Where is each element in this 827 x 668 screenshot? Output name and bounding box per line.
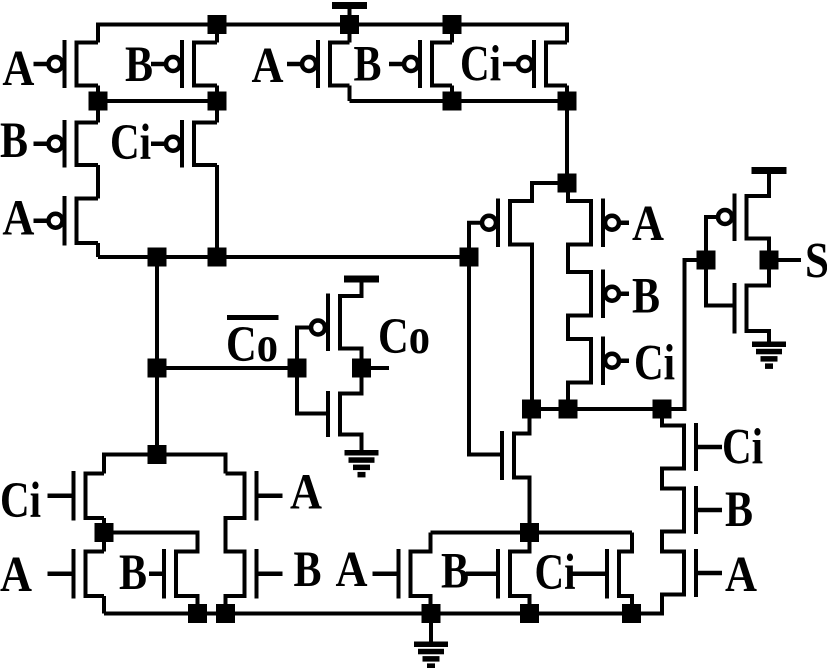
wire CoBar to sum NMOS gate	[469, 257, 500, 455]
svg-text:A: A	[252, 38, 284, 94]
svg-text:Co: Co	[378, 309, 430, 365]
transistor PMOS A (sum series chain)	[568, 199, 629, 248]
transistor NMOS A (carry pulldown row2 left)	[48, 549, 105, 599]
label CoBar	[226, 315, 279, 373]
power VDD (Co inverter)	[344, 276, 379, 298]
junction VDD rail / VDD stem	[340, 15, 359, 34]
wire N2 down to sum PMOS	[565, 101, 569, 183]
wire nmos B21 top	[510, 533, 530, 552]
svg-text:B: B	[725, 482, 753, 538]
wire left col2 row2-CoB rail	[215, 165, 219, 257]
svg-text:A: A	[725, 547, 757, 603]
label Ci (carry row2 right)	[110, 115, 151, 171]
label A (sum pulldown parallel)	[336, 542, 368, 598]
wire CoBar to Co inverter	[157, 366, 297, 370]
transistor NMOS CoBar-gated (sum pulldown)	[502, 431, 530, 480]
label A (sum parallel)	[252, 38, 284, 94]
label B (carry pulldown right)	[294, 542, 322, 598]
junction CoBar / carry col2	[208, 248, 227, 267]
transistor PMOS B (carry row2 left)	[34, 120, 99, 168]
label A (carry row3)	[2, 191, 34, 247]
power VDD (S inverter)	[752, 167, 787, 189]
transistor NMOS A (sum parallel pulldown)	[373, 549, 431, 599]
transistor NMOS (Co inverter)	[328, 391, 362, 437]
transistor PMOS A (carry row1 left)	[34, 40, 99, 88]
wire nmos Ci22 bottom	[619, 596, 632, 614]
wire nmos col1 bottom	[102, 596, 106, 614]
wire S output lead	[779, 258, 802, 262]
wire S inv NMOS top	[747, 260, 770, 286]
svg-text:Ci: Ci	[634, 336, 675, 392]
transistor PMOS B (sum parallel group)	[389, 40, 452, 88]
label B (sum parallel)	[354, 37, 382, 93]
wire sum chain NMOS bottom jog	[662, 595, 684, 614]
transistor NMOS B (sum series pulldown)	[662, 486, 722, 534]
wire sum chain NMOS top jog	[662, 409, 684, 426]
wire left col2 row1-node1	[215, 86, 219, 123]
transistor PMOS (S inverter)	[718, 194, 769, 242]
transistor PMOS A (carry row3)	[34, 196, 99, 246]
wire pmosA6 bottom	[348, 86, 352, 102]
junction GND rail / right branch	[216, 604, 235, 623]
svg-text:S: S	[805, 234, 827, 290]
wire sum NMOS T23 top	[514, 409, 530, 434]
junction SBar mid	[559, 400, 578, 419]
label A (sum chain NMOS)	[725, 547, 757, 603]
wire Co inv PMOS bottom	[340, 349, 362, 369]
junction SBar right	[653, 400, 672, 419]
junction Co inverter input	[288, 359, 307, 378]
svg-text:A: A	[0, 547, 32, 603]
svg-text:B: B	[441, 544, 469, 600]
junction CoBar / drop left	[148, 248, 167, 267]
svg-text:B: B	[119, 545, 147, 601]
junction N1 right	[208, 92, 227, 111]
label A (sum chain PMOS)	[632, 196, 664, 252]
wire nmos A20 bottom	[411, 596, 431, 614]
wire Co inv gate lead	[297, 328, 309, 369]
wire S inv NMOS gate lead	[706, 260, 734, 306]
node N1 (carry PMOS mid)	[98, 99, 217, 103]
wire pmosB7 bottom	[450, 86, 454, 102]
junction N1 left	[89, 92, 108, 111]
junction sum pulldown mid N4	[520, 523, 539, 542]
transistor NMOS Ci (sum parallel pulldown)	[571, 549, 632, 599]
junction N2 / pmos B7	[443, 92, 462, 111]
label Ci (sum pulldown parallel)	[535, 545, 576, 601]
junction GND rail / Bmid	[188, 604, 207, 623]
wire sum chain top jog	[568, 183, 591, 201]
transistor NMOS (S inverter)	[735, 283, 770, 334]
transistor PMOS CoBar-gated (sum)	[482, 199, 532, 248]
transistor PMOS Ci (carry row2 right)	[151, 120, 217, 168]
wire Co inv NMOS bottom	[340, 435, 362, 451]
ground (main)	[414, 614, 448, 668]
transistor NMOS A (sum series pulldown)	[662, 549, 722, 597]
junction N2 right	[558, 92, 577, 111]
svg-text:Ci: Ci	[460, 37, 501, 93]
wire nmos Bmid bottom	[176, 596, 198, 614]
wire CoBar drop left	[155, 257, 159, 455]
power VDD (top)	[332, 2, 367, 24]
wire sum PMOS T9 gate lead	[469, 223, 484, 257]
wire nmos right branch mid	[226, 518, 245, 552]
wire nmos A20 top	[411, 533, 431, 552]
label Ci (sum parallel)	[460, 37, 501, 93]
label B (sum chain NMOS)	[725, 482, 753, 538]
label A (carry pulldown left)	[0, 547, 32, 603]
svg-text:Ci: Ci	[722, 420, 763, 476]
svg-text:A: A	[336, 542, 368, 598]
label S (output)	[805, 234, 827, 290]
wire nmos B21 bottom	[510, 596, 530, 614]
junction VDD rail / pmos B7	[443, 15, 462, 34]
junction sum PMOS top	[558, 174, 577, 193]
wire nmos Ci22 top	[619, 533, 632, 552]
transistor NMOS B (sum parallel pulldown)	[466, 549, 530, 599]
transistor NMOS A (carry pulldown row1 right)	[226, 471, 283, 521]
junction GND rail / ground	[422, 604, 441, 623]
transistor NMOS Ci (carry pulldown row1 left)	[48, 471, 105, 521]
svg-text:Co: Co	[226, 317, 278, 373]
wire sum chain jog A-B	[568, 245, 591, 273]
label B (sum chain PMOS)	[632, 269, 660, 325]
transistor PMOS A (sum parallel group)	[287, 40, 350, 88]
svg-text:Ci: Ci	[0, 473, 41, 529]
label A (carry pulldown right)	[290, 465, 322, 521]
svg-text:Ci: Ci	[110, 115, 151, 171]
junction CoBar / NMOS network top	[148, 445, 167, 464]
transistor PMOS (Co inverter)	[311, 294, 362, 352]
transistor PMOS Ci (sum series chain)	[568, 337, 629, 386]
wire sum chain bottom jog	[568, 383, 591, 410]
svg-text:B: B	[0, 113, 28, 169]
wire sum PMOS left branch top	[510, 183, 567, 201]
wire node N3 to B mid	[104, 533, 198, 552]
junction SBar left	[522, 400, 541, 419]
svg-text:A: A	[290, 465, 322, 521]
wire Co inv NMOS gate lead	[297, 368, 328, 414]
junction GND rail / B21	[520, 604, 539, 623]
label B (carry row2 left)	[0, 113, 28, 169]
label B (carry pulldown mid)	[119, 545, 147, 601]
wire left col2 top	[215, 25, 219, 43]
wire left col1 row2-row3	[96, 165, 100, 199]
junction carry pulldown mid N3	[95, 523, 114, 542]
wire S inv gate lead	[706, 217, 716, 260]
svg-text:A: A	[2, 41, 34, 97]
wire left col1 row1-node1	[96, 86, 100, 123]
wire sum chain NMOS jog Ci-B	[662, 469, 684, 489]
wire sum chain NMOS jog B-A	[662, 532, 684, 552]
net CoBar rail	[98, 255, 469, 259]
wire pmosA6 top	[348, 25, 352, 43]
label Ci (sum chain PMOS)	[634, 336, 675, 392]
svg-text:Ci: Ci	[535, 545, 576, 601]
junction GND rail / Ci22	[622, 604, 641, 623]
wire sum NMOS T23 bottom	[514, 478, 530, 533]
wire Co inv VDD stem	[360, 282, 364, 283]
transistor NMOS B (carry pulldown mid)	[149, 549, 198, 599]
svg-text:B: B	[294, 542, 322, 598]
transistor NMOS B (carry pulldown row2 right)	[226, 549, 283, 599]
node SBar	[532, 260, 707, 409]
svg-text:B: B	[632, 269, 660, 325]
wire nmos right branch bottom	[226, 596, 245, 614]
wire S inv VDD stem	[747, 174, 770, 196]
node N2 (sum VDD group out)	[350, 99, 568, 103]
svg-text:B: B	[354, 37, 382, 93]
net GND rail	[104, 595, 662, 614]
junction CoBar / sum gates drop	[460, 248, 479, 267]
node N4 (sum NMOS mid)	[431, 531, 633, 535]
wire pmosB7 top	[450, 25, 454, 43]
transistor NMOS Ci (sum series pulldown)	[662, 423, 722, 471]
label Ci (sum chain NMOS)	[722, 420, 763, 476]
label B (carry row1 right)	[125, 37, 153, 93]
wire VDD rail	[98, 25, 567, 43]
junction CoBar drop / Co line	[148, 359, 167, 378]
junction VDD rail / carry col2	[208, 15, 227, 34]
label B (sum pulldown parallel)	[441, 544, 469, 600]
wire S inv NMOS bottom	[747, 331, 770, 342]
wire nmos right branch top	[226, 472, 245, 476]
junction S inverter input	[697, 251, 716, 270]
wire S inv PMOS bottom	[747, 239, 770, 261]
label A (carry row1 left)	[2, 41, 34, 97]
wire nmos col1 mid	[102, 518, 106, 552]
svg-text:A: A	[632, 196, 664, 252]
wire Co inv NMOS top	[340, 368, 362, 394]
wire pmosCi8 bottom	[565, 86, 569, 102]
svg-text:B: B	[125, 37, 153, 93]
svg-text:A: A	[2, 191, 34, 247]
wire Co output lead	[371, 366, 390, 370]
label Co (output)	[378, 309, 430, 365]
wire Co inv PMOS top	[340, 283, 362, 296]
ground (S inverter)	[752, 342, 786, 369]
transistor PMOS B (carry row1 right)	[151, 40, 217, 88]
junction Co inverter output	[352, 359, 371, 378]
transistor PMOS B (sum series chain)	[568, 270, 629, 319]
wire left col1 row3-CoB rail	[96, 243, 100, 257]
wire sum chain jog B-Ci	[568, 316, 591, 340]
junction S inverter output	[760, 251, 779, 270]
node CoBar NMOS top	[104, 455, 226, 474]
ground (Co inverter)	[345, 450, 379, 477]
label Ci (carry pulldown left)	[0, 473, 41, 529]
transistor PMOS Ci (sum parallel group)	[503, 40, 567, 88]
wire sum PMOS left branch bottom	[510, 245, 532, 410]
wire VDD stem	[348, 9, 352, 25]
